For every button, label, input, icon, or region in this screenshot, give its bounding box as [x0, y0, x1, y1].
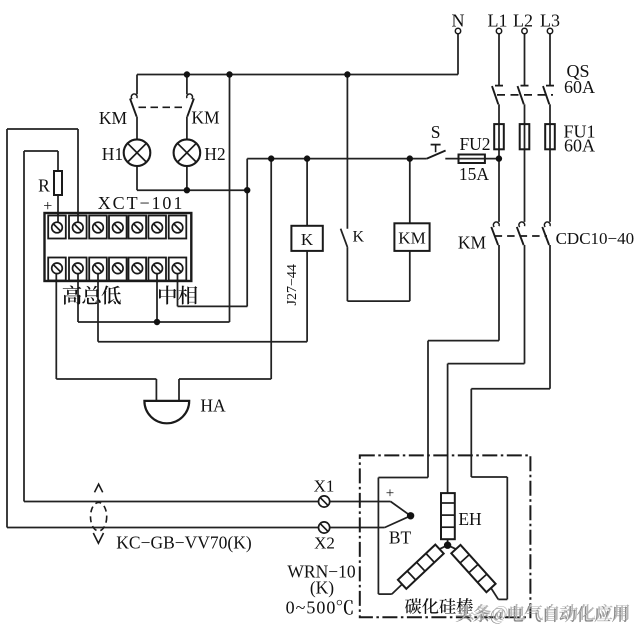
svg-text:X2: X2	[314, 534, 335, 553]
svg-text:+: +	[43, 198, 52, 215]
svg-text:J27−44: J27−44	[285, 264, 300, 305]
svg-text:H1: H1	[102, 144, 123, 164]
svg-text:KM: KM	[99, 108, 128, 128]
svg-text:K: K	[353, 228, 365, 245]
svg-text:K: K	[301, 230, 314, 249]
svg-text:CDC10−40: CDC10−40	[556, 229, 635, 248]
svg-text:HA: HA	[200, 396, 226, 416]
svg-text:+: +	[386, 486, 394, 502]
svg-text:XCT−101: XCT−101	[98, 193, 184, 213]
svg-text:R: R	[38, 176, 50, 196]
svg-text:BT: BT	[389, 528, 412, 548]
svg-text:H2: H2	[204, 144, 225, 164]
svg-text:60A: 60A	[564, 77, 595, 97]
svg-text:0~500: 0~500	[286, 598, 337, 618]
svg-text:KM: KM	[398, 229, 425, 248]
svg-text:KM: KM	[191, 108, 220, 128]
svg-text:EH: EH	[458, 509, 482, 529]
svg-text:L3: L3	[540, 11, 560, 31]
svg-text:15A: 15A	[459, 164, 490, 184]
svg-text:L2: L2	[513, 11, 533, 31]
svg-text:N: N	[452, 11, 465, 31]
svg-text:X1: X1	[314, 477, 335, 496]
svg-text:KC−GB−VV70(K): KC−GB−VV70(K)	[116, 532, 252, 552]
svg-text:(K): (K)	[310, 578, 334, 598]
svg-text:60A: 60A	[564, 136, 595, 156]
svg-text:KM: KM	[458, 232, 487, 252]
svg-text:FU2: FU2	[459, 134, 490, 154]
svg-text:S: S	[431, 122, 441, 142]
svg-text:L1: L1	[488, 11, 508, 31]
